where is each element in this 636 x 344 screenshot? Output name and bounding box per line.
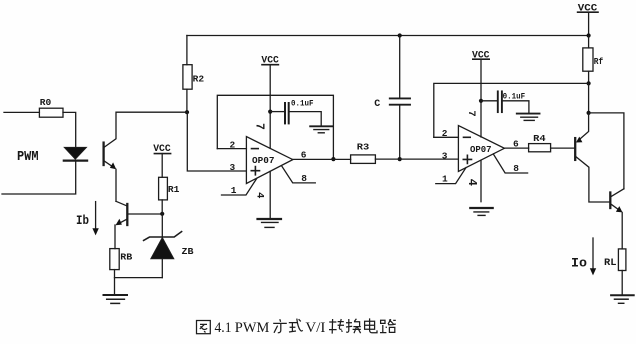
svg-text:Io: Io [571,256,587,271]
svg-text:PWM: PWM [17,149,39,165]
pin 1 stub U2 [436,168,466,184]
transistor Q3 (PNP) [575,113,610,202]
ground U2 [470,208,492,215]
svg-text:2: 2 [442,128,448,139]
pin 7 wire U2 [480,59,482,137]
resistor R4 [529,133,551,152]
svg-text:3: 3 [230,162,236,173]
junction rail/Rf/VCC [587,33,591,37]
svg-text:OP07: OP07 [252,156,275,166]
wire R1 to node [161,200,163,214]
pin 8 stub U2 [493,154,527,173]
glyph 电 [365,318,377,332]
svg-text:OP07: OP07 [470,145,492,155]
capacitor C [374,36,410,160]
node Io label and arrow [571,238,596,275]
svg-text:C: C [374,99,380,110]
capacitor C1 0.1uF [270,98,321,126]
svg-text:3: 3 [442,150,448,161]
wire zener bottom to RB bottom [115,277,163,279]
glyph 路 [380,319,396,332]
ground for C2 [517,114,540,121]
svg-text:8: 8 [301,173,307,184]
svg-text:7: 7 [465,110,477,116]
svg-text:4: 4 [253,192,265,198]
svg-text:4.1: 4.1 [215,320,232,336]
op-amp U2 OP07 [458,126,504,172]
svg-text:0.1uF: 0.1uF [503,91,525,101]
caption: 图 4.1 PWM 方式 V/I 转换电路 [197,318,396,335]
wire diode to bottom rail [2,162,76,194]
glyph 图 [197,321,211,334]
pin 8 stub U1 [282,166,316,183]
svg-text:4: 4 [465,179,479,186]
wire R0 to diode [63,112,76,147]
transistor Q2 (driver, mirrored) [116,204,163,225]
wire Rf node down to output node [588,83,590,113]
svg-text:R4: R4 [533,133,546,144]
capacitor C2 0.1uF [481,91,529,113]
resistor RB [110,249,133,270]
wire R2 to node A [186,89,188,112]
svg-text:0.1uF: 0.1uF [291,98,314,108]
wire R4 to Q3 base [551,147,575,149]
resistor R0 [39,97,63,117]
node VCC top-right symbol [578,3,598,35]
pin 4 wire U1 [269,171,271,218]
svg-text:Rf: Rf [594,56,604,67]
diode D1 (opto LED) [64,147,87,160]
wire VCC top rail [187,35,589,37]
glyph 换 [346,319,361,333]
svg-text:R2: R2 [193,74,205,85]
wire node B to Q4 collector [589,113,624,189]
svg-text:R3: R3 [357,142,370,153]
svg-text:V/I: V/I [305,320,325,336]
resistor R2 [183,65,204,90]
junction R1/base/zener [160,212,164,216]
wire Q1 emitter to Q2 collector [116,201,127,206]
svg-text:Ib: Ib [76,213,89,228]
ground U1 [258,219,282,227]
node A junction R2/collector/pin3 [185,110,189,114]
junction pin7/cap U1 [268,110,272,114]
op-amp U1 OP07 [246,137,292,184]
wire feedback U1 [217,95,333,159]
svg-text:2: 2 [230,139,236,150]
ground below RB [104,295,128,303]
junction rail/C [398,33,402,37]
glyph 方 [273,319,287,333]
wire rail to R2 [186,36,188,65]
pin 7 wire U1 [269,65,271,149]
zener ZB [144,232,194,278]
glyph 转 [329,319,344,334]
pin 6 wire U2 output [504,147,528,149]
node VCC symbol above U2 pin7 [472,50,490,61]
svg-text:1: 1 [442,174,448,185]
svg-text:8: 8 [513,163,519,174]
wire RL to ground [621,271,623,295]
glyph 式 [289,319,303,332]
wire node to zener [161,214,163,237]
wire R3 to U2 pin3 [375,158,458,160]
svg-text:6: 6 [513,139,519,150]
node VCC symbol above R1 [153,144,171,177]
resistor Rf [583,36,604,84]
wire PWM input top [4,111,39,113]
resistor RL [604,249,626,271]
node VCC symbol above U1 pin7 [261,55,279,66]
wire node A down to pin3 level [187,112,246,171]
svg-text:R1: R1 [168,184,180,195]
node B junction Q3 emitter / Q4 collector [587,111,591,115]
svg-text:6: 6 [301,150,307,161]
svg-text:1: 1 [231,185,237,196]
transistor Q1 (opto phototransistor) [104,112,187,201]
pin 2 wire U2 [434,136,459,138]
svg-text:RL: RL [604,258,617,269]
pin 1 stub U1 [222,179,257,195]
pin 6 wire U1 output [293,158,351,160]
svg-text:RB: RB [120,252,132,263]
wire Q2 emitter to RB [114,225,116,249]
junction feedback/output U1 [331,157,335,161]
resistor R1 [159,177,180,200]
pin 4 wire U2 [480,160,482,202]
transistor Q4 (NPN output) [610,189,624,249]
junction Rf/feedback2 [587,81,591,85]
pin 2 wire U1 [217,148,246,150]
svg-text:R0: R0 [40,97,52,108]
svg-text:PWM: PWM [235,320,270,336]
ground below RL [611,295,634,303]
svg-text:ZB: ZB [182,246,194,257]
wire feedback U2 to Rf node [434,83,589,137]
node Ib label and arrow [76,202,99,236]
ground for C1 [310,126,332,133]
wire RB to ground [114,270,116,295]
junction C/R3 wire [398,157,402,161]
resistor R3 [351,142,376,164]
svg-text:7: 7 [253,123,266,130]
junction pin7/cap U2 [479,99,483,103]
